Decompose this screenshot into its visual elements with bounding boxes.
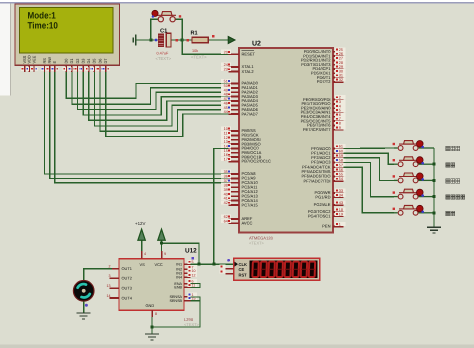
- junction node A: [149, 39, 152, 42]
- svg-text:RESET: RESET: [242, 51, 256, 56]
- svg-text:IN1: IN1: [176, 263, 182, 267]
- wire button bus: [433, 148, 435, 227]
- svg-text:PC7/A15: PC7/A15: [242, 202, 259, 207]
- svg-text:OUT4: OUT4: [122, 295, 133, 300]
- power arrow VCC: [158, 229, 165, 251]
- wire PF4 to button5: [344, 167, 395, 213]
- wire D6 to PA6: [100, 72, 229, 131]
- svg-text:CLK: CLK: [239, 262, 247, 267]
- svg-text:61: 61: [339, 145, 343, 149]
- ground U12: [145, 334, 159, 340]
- svg-text:PA7/AD7: PA7/AD7: [242, 111, 259, 116]
- label button5: [446, 211, 455, 215]
- svg-text:34: 34: [339, 193, 343, 197]
- LCD pin stubs: [25, 65, 106, 72]
- svg-text:54: 54: [339, 177, 343, 181]
- svg-text:U12: U12: [185, 248, 197, 255]
- wire D2 to PA2: [78, 72, 229, 110]
- svg-text:17: 17: [224, 158, 228, 162]
- svg-text:+12V: +12V: [135, 221, 145, 226]
- wire reset to pin20: [182, 40, 228, 54]
- U2 left pin labels: [242, 51, 272, 225]
- svg-text:44: 44: [224, 110, 228, 114]
- svg-text:PG4/TOSC1: PG4/TOSC1: [308, 214, 331, 219]
- junction VCC: [160, 242, 163, 245]
- svg-text:56: 56: [339, 168, 343, 172]
- wire D5 to PA5: [94, 72, 228, 126]
- LCD module LCD1: [15, 4, 120, 65]
- svg-text:PEN: PEN: [322, 224, 330, 229]
- svg-text:OUT2: OUT2: [122, 276, 132, 281]
- wire motor to ground: [83, 301, 85, 313]
- svg-text:D3: D3: [81, 59, 86, 64]
- svg-text:R1: R1: [191, 31, 198, 37]
- ground motor: [77, 313, 91, 319]
- svg-text:D7: D7: [103, 59, 108, 64]
- U12 bottom pin GND: [146, 303, 158, 317]
- junction bus: [433, 195, 436, 198]
- push button K1: [393, 141, 434, 151]
- U12 left pins: [107, 265, 133, 301]
- wire PB4 to L298 IN1: [214, 148, 229, 264]
- svg-text:PE7/ICP3/INT7: PE7/ICP3/INT7: [303, 127, 331, 132]
- svg-text:ENB: ENB: [174, 286, 182, 290]
- svg-text:0.47uF: 0.47uF: [157, 52, 170, 56]
- U2 left pin stubs: [229, 54, 239, 223]
- svg-text:9: 9: [339, 126, 341, 130]
- svg-text:64: 64: [224, 219, 228, 223]
- svg-text:13: 13: [107, 284, 111, 288]
- wire D0 to PA0: [66, 72, 228, 98]
- svg-text:VS: VS: [140, 262, 146, 267]
- svg-text:20: 20: [224, 50, 228, 54]
- svg-text:<TEXT>: <TEXT>: [156, 56, 172, 61]
- wire ENA ENB bracket: [191, 284, 201, 288]
- wire main reset node: [136, 39, 158, 41]
- svg-text:E: E: [52, 61, 57, 64]
- svg-text:RST: RST: [239, 273, 248, 278]
- svg-text:37: 37: [224, 179, 228, 183]
- motor M1: [73, 281, 94, 307]
- terminal arrow to RESET: [228, 37, 235, 44]
- svg-text:PG1/RD: PG1/RD: [315, 195, 330, 200]
- U12 top pins: [140, 251, 167, 267]
- label button4: [446, 195, 465, 199]
- svg-text:Time:10: Time:10: [28, 21, 58, 31]
- capacitor C1: [155, 28, 189, 62]
- svg-text:9: 9: [164, 252, 166, 256]
- svg-text:35: 35: [224, 170, 228, 174]
- svg-text:24: 24: [224, 63, 228, 67]
- svg-text:D6: D6: [97, 59, 102, 64]
- push button K2: [393, 157, 434, 167]
- motor driver U12 L298 body: [119, 248, 200, 328]
- power +12V arrow VS: [135, 221, 145, 251]
- display pin labels: [239, 262, 248, 278]
- push button K3: [393, 173, 434, 183]
- wire IN1 to display CLK: [191, 263, 234, 265]
- label button1: [446, 146, 460, 150]
- wire button right leg: [176, 19, 183, 40]
- seven-segment clock display DS1: [234, 258, 320, 280]
- svg-text:<TEXT>: <TEXT>: [249, 241, 265, 246]
- svg-text:OUT3: OUT3: [122, 286, 132, 291]
- svg-text:D5: D5: [92, 59, 97, 64]
- wire D4 to PA4: [89, 72, 229, 120]
- svg-text:PD7/T2: PD7/T2: [317, 79, 331, 84]
- wire D3 to PA3: [83, 72, 228, 115]
- wire D7 to PA7: [106, 72, 229, 136]
- svg-text:D4: D4: [86, 58, 91, 64]
- wire VCC tee to IN1 net: [162, 243, 200, 264]
- LCD pin numbers: [21, 67, 109, 71]
- junction node B: [181, 39, 184, 42]
- U2 RESET overbar: [242, 49, 255, 51]
- display digits: [252, 262, 315, 277]
- svg-text:IN4: IN4: [176, 276, 182, 280]
- junction GND: [151, 326, 154, 329]
- svg-text:32: 32: [339, 78, 343, 82]
- svg-text:10k: 10k: [192, 49, 198, 53]
- label button3: [446, 179, 460, 183]
- push button K0 (reset): [152, 10, 182, 22]
- svg-text:3: 3: [109, 274, 111, 278]
- svg-text:PB7/OC2/OC1C: PB7/OC2/OC1C: [242, 159, 272, 164]
- wire SENSA SENSB to ground: [191, 297, 201, 301]
- svg-text:AVCC: AVCC: [242, 221, 253, 226]
- svg-text:23: 23: [224, 68, 228, 72]
- svg-text:VCC: VCC: [155, 262, 163, 267]
- wire E to PC2: [55, 72, 229, 183]
- wire PF3 to button4: [344, 163, 395, 197]
- ground bus: [427, 227, 441, 233]
- label button2: [446, 163, 455, 167]
- resistor R1: [191, 31, 215, 60]
- junction bus: [433, 179, 436, 182]
- U2 right pin numbers: [335, 47, 346, 226]
- LCD pin labels: [22, 55, 108, 63]
- svg-text:39: 39: [224, 188, 228, 192]
- svg-text:D1: D1: [69, 59, 74, 64]
- push button K4: [393, 189, 434, 199]
- svg-text:59: 59: [339, 154, 343, 158]
- svg-text:58: 58: [339, 159, 343, 163]
- left margin strip: [0, 4, 10, 96]
- wire OUT1 to motor: [84, 269, 112, 281]
- display CE RST stubs: [226, 269, 234, 274]
- svg-text:1: 1: [339, 223, 341, 227]
- LCD screen text: [28, 10, 58, 30]
- svg-text:XTAL2: XTAL2: [242, 69, 255, 74]
- svg-text:40: 40: [224, 192, 228, 196]
- svg-text:36: 36: [224, 174, 228, 178]
- svg-text:60: 60: [339, 149, 343, 153]
- wire RW to PC1: [50, 72, 229, 178]
- svg-text:14: 14: [107, 294, 111, 298]
- wire RS to PC0: [45, 72, 229, 174]
- svg-text:4: 4: [144, 252, 146, 256]
- svg-text:19: 19: [339, 212, 343, 216]
- svg-text:43: 43: [339, 201, 343, 205]
- junction IN1 net: [198, 263, 201, 266]
- svg-text:41: 41: [224, 197, 228, 201]
- wire PF0 to button1: [344, 147, 395, 150]
- svg-text:<TEXT>: <TEXT>: [184, 322, 200, 327]
- junction bus: [433, 211, 436, 214]
- wire button left leg: [151, 19, 158, 40]
- U2 left pin numbers: [221, 50, 231, 224]
- svg-text:<TEXT>: <TEXT>: [191, 55, 207, 60]
- svg-text:2: 2: [109, 265, 111, 269]
- svg-text:55: 55: [339, 173, 343, 177]
- microcontroller U2 ATMEGA128 body: [239, 41, 333, 246]
- wire PF2 to button3: [344, 158, 395, 181]
- wire D1 to PA1: [72, 72, 229, 104]
- svg-text:GND: GND: [146, 303, 155, 308]
- svg-text:PG2/ALE: PG2/ALE: [314, 202, 331, 207]
- svg-text:CE: CE: [239, 267, 245, 272]
- svg-text:57: 57: [339, 163, 343, 167]
- svg-text:D2: D2: [75, 59, 80, 64]
- wire GND stub down: [151, 317, 153, 334]
- svg-text:38: 38: [224, 183, 228, 187]
- U2 right pin stubs: [333, 52, 344, 227]
- U12 right pins: [169, 257, 197, 303]
- U2 right pin labels: [301, 49, 332, 229]
- power terminal VCC: [133, 35, 136, 46]
- svg-text:OUT1: OUT1: [122, 266, 132, 271]
- svg-text:Mode:1: Mode:1: [28, 10, 56, 20]
- push button K5: [393, 205, 434, 215]
- display input arrow: [235, 262, 239, 267]
- svg-text:8: 8: [155, 312, 157, 316]
- wire PF1 to button2: [344, 153, 395, 164]
- svg-text:PF7/ADC7/TDI: PF7/ADC7/TDI: [304, 178, 331, 183]
- svg-text:U2: U2: [252, 41, 261, 48]
- svg-text:42: 42: [224, 201, 228, 205]
- svg-text:12: 12: [192, 273, 196, 277]
- svg-text:SENSB: SENSB: [169, 299, 182, 303]
- junction bus: [433, 163, 436, 166]
- svg-text:VEE: VEE: [31, 55, 36, 63]
- svg-text:D0: D0: [64, 58, 69, 64]
